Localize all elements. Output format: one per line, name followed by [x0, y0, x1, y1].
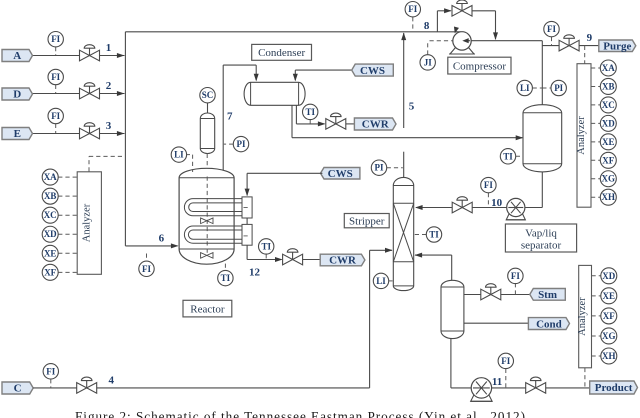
svg-text:XB: XB [44, 191, 57, 201]
svg-text:E: E [14, 128, 21, 140]
svg-text:XC: XC [44, 210, 57, 220]
svg-text:XE: XE [602, 137, 615, 147]
svg-text:JI: JI [424, 57, 433, 67]
svg-text:XD: XD [602, 271, 615, 281]
svg-text:FI: FI [51, 111, 60, 121]
svg-text:Purge: Purge [603, 40, 631, 52]
svg-text:FI: FI [547, 24, 556, 34]
svg-text:1: 1 [106, 42, 112, 54]
svg-text:FI: FI [501, 356, 510, 366]
svg-text:XA: XA [602, 63, 615, 73]
svg-text:A: A [13, 50, 21, 62]
svg-text:XD: XD [44, 229, 57, 239]
svg-text:3: 3 [106, 120, 112, 132]
svg-text:Cond: Cond [536, 318, 562, 330]
svg-text:12: 12 [249, 267, 261, 279]
svg-text:Analyzer: Analyzer [576, 116, 587, 155]
svg-text:CWR: CWR [329, 255, 357, 267]
svg-text:D: D [13, 89, 21, 101]
svg-text:C: C [14, 383, 22, 395]
svg-text:XF: XF [603, 311, 615, 321]
svg-text:XC: XC [602, 100, 615, 110]
svg-text:Condenser: Condenser [258, 47, 305, 59]
svg-text:FI: FI [46, 366, 55, 376]
svg-text:2: 2 [106, 80, 112, 92]
svg-text:Figure 2: Schematic of the Ten: Figure 2: Schematic of the Tennessee Eas… [75, 409, 525, 418]
svg-text:Stripper: Stripper [349, 215, 385, 227]
svg-text:Stm: Stm [538, 289, 557, 301]
svg-text:PI: PI [237, 139, 246, 149]
svg-text:CWS: CWS [360, 65, 385, 77]
svg-text:XF: XF [44, 267, 56, 277]
svg-text:PI: PI [554, 83, 563, 93]
svg-text:Analyzer: Analyzer [81, 203, 92, 242]
svg-text:FI: FI [408, 4, 417, 14]
svg-text:TI: TI [429, 229, 439, 239]
svg-text:LI: LI [376, 276, 386, 286]
svg-text:Compressor: Compressor [453, 60, 507, 72]
svg-text:9: 9 [587, 32, 593, 44]
svg-text:10: 10 [491, 197, 503, 209]
svg-text:LI: LI [520, 83, 530, 93]
svg-text:TI: TI [503, 151, 513, 161]
svg-text:CWS: CWS [328, 168, 353, 180]
svg-text:XA: XA [44, 172, 57, 182]
svg-text:5: 5 [409, 101, 415, 113]
svg-text:7: 7 [227, 111, 233, 123]
svg-text:FI: FI [51, 72, 60, 82]
svg-text:LI: LI [174, 150, 184, 160]
svg-text:FI: FI [484, 180, 493, 190]
svg-text:TI: TI [305, 107, 315, 117]
svg-text:XG: XG [602, 331, 616, 341]
svg-text:11: 11 [492, 376, 502, 388]
svg-text:Reactor: Reactor [190, 303, 225, 315]
svg-text:FI: FI [511, 271, 520, 281]
svg-text:TI: TI [221, 273, 231, 283]
svg-text:XE: XE [44, 248, 57, 258]
svg-text:XE: XE [603, 291, 616, 301]
svg-text:separator: separator [521, 240, 562, 252]
svg-text:PI: PI [375, 163, 384, 173]
svg-text:FI: FI [142, 264, 151, 274]
svg-text:Product: Product [595, 382, 633, 394]
svg-text:CWR: CWR [362, 119, 390, 131]
svg-text:4: 4 [109, 374, 115, 386]
svg-text:XH: XH [602, 351, 616, 361]
svg-text:FI: FI [51, 34, 60, 44]
svg-text:TI: TI [261, 241, 271, 251]
svg-text:XF: XF [602, 155, 614, 165]
svg-text:Vap/liq: Vap/liq [525, 228, 557, 240]
svg-text:SC: SC [202, 90, 214, 100]
svg-text:8: 8 [424, 20, 430, 32]
svg-text:XG: XG [602, 174, 616, 184]
svg-text:XB: XB [602, 81, 615, 91]
svg-text:XH: XH [602, 192, 616, 202]
svg-text:XD: XD [602, 118, 615, 128]
svg-text:Analyzer: Analyzer [577, 297, 588, 336]
svg-text:6: 6 [159, 233, 165, 245]
